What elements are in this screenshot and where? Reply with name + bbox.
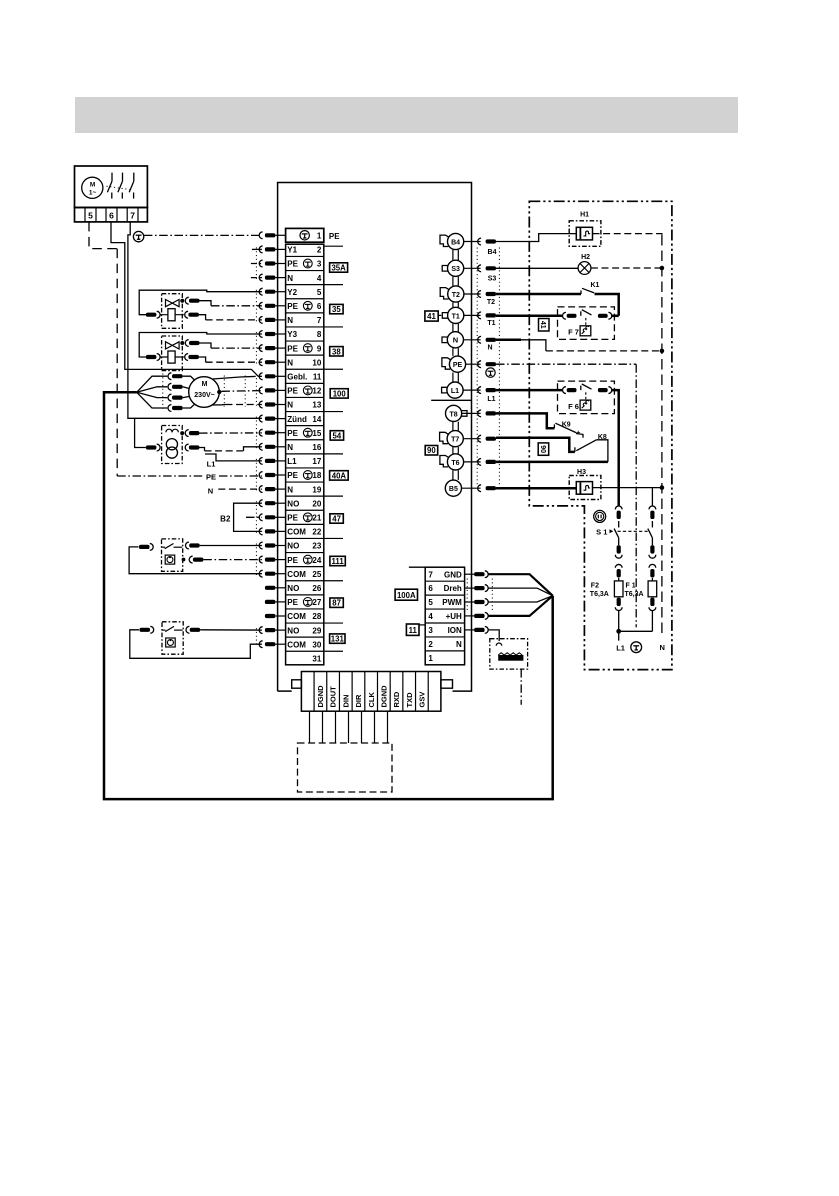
wire pump P1 PE to terminal 24 (dash-dot) (203, 559, 262, 561)
switch K9 (553, 424, 555, 428)
sensor B2 bracket (234, 503, 262, 531)
svg-text:2: 2 (428, 640, 433, 649)
connector T6 (447, 454, 463, 470)
terminal row divider 6/7 (286, 312, 324, 314)
svg-text:M: M (202, 381, 208, 388)
fan cable converging wires (488, 574, 552, 596)
edge connector cell divider 9 (415, 672, 417, 712)
svg-text:+: + (576, 428, 581, 437)
edge connector cell divider 8 (402, 672, 404, 712)
svg-text:N: N (287, 485, 293, 494)
fan block divider (425, 594, 464, 596)
svg-text:PE: PE (287, 302, 298, 311)
switch K1 (580, 290, 582, 294)
interface module (dashed box) (298, 743, 393, 792)
svg-text:35: 35 (332, 305, 341, 314)
svg-text:2: 2 (317, 246, 322, 255)
svg-text:100A: 100A (397, 591, 416, 600)
terminal row divider 17/18 (286, 467, 324, 469)
connector T2 (448, 286, 464, 302)
wire N to rail (496, 339, 521, 342)
terminal row divider 13/14 (286, 411, 324, 413)
wire B4 to H1 (496, 234, 576, 242)
svg-text:T6,3A: T6,3A (590, 591, 609, 598)
connector T1 (448, 307, 464, 323)
pump P1 PE dot (182, 558, 186, 562)
svg-text:3: 3 (317, 260, 322, 269)
valve Y2 coil (160, 314, 184, 316)
svg-text:S3: S3 (451, 266, 460, 273)
svg-text:T7: T7 (451, 437, 459, 444)
boxed label 87 (330, 598, 343, 607)
wire terminal 7 to ignition (solid) (128, 222, 262, 418)
motor top wire to Gebl.11 (213, 376, 256, 379)
svg-text:18: 18 (312, 471, 321, 480)
wire ignition L feed (135, 418, 146, 447)
terminal row divider 10/11 (286, 368, 324, 370)
transformer left plug (146, 445, 157, 449)
junction dot H2/N (660, 266, 665, 271)
valve Y2 body box (162, 294, 183, 329)
terminal row divider 19/20 (286, 495, 324, 497)
earth symbol (mains PE) (631, 642, 642, 653)
svg-text:4: 4 (428, 612, 433, 621)
svg-text:1: 1 (317, 232, 322, 241)
svg-text:16: 16 (312, 443, 321, 452)
svg-text:L1: L1 (487, 396, 495, 403)
svg-text:41: 41 (539, 321, 546, 329)
terminal row divider 28/29 (286, 622, 324, 624)
header bar (75, 97, 738, 133)
fuse body (648, 581, 657, 597)
boxed label 100A (395, 589, 417, 600)
svg-text:T8: T8 (450, 411, 458, 418)
wire transformer PE to terminal 15 (dash-dot) (199, 432, 262, 434)
rotated label 90 (538, 443, 549, 455)
svg-text:90: 90 (427, 446, 436, 455)
motor symbol M1~ in switch box (82, 177, 103, 198)
svg-text:B5: B5 (449, 486, 458, 493)
external mains switch box (75, 166, 148, 208)
terminal strip row 1 box (286, 228, 324, 242)
svg-text:38: 38 (332, 347, 341, 356)
svg-text:H3: H3 (577, 469, 586, 476)
wire PE to earth (dash-dot) (496, 363, 636, 365)
svg-text:F 7: F 7 (568, 328, 579, 337)
boxed label 11 (406, 624, 419, 635)
edge connector cell divider 1 (313, 672, 315, 712)
edge connector cell divider 3 (338, 672, 340, 712)
svg-text:PE: PE (287, 514, 298, 523)
wire T7 to K8 (496, 438, 575, 452)
svg-text:S3: S3 (488, 276, 497, 283)
svg-text:PE: PE (287, 387, 298, 396)
svg-text:COM: COM (287, 612, 306, 621)
motor lead wires (183, 376, 195, 380)
valve Y2 loop wire (139, 290, 262, 315)
svg-text:T1: T1 (452, 313, 460, 320)
svg-text:NO: NO (287, 499, 299, 508)
pump P2 (terminals 29-30) motor icon (166, 638, 176, 647)
wire T6 (496, 461, 608, 464)
svg-text:H1: H1 (580, 212, 589, 219)
terminal row divider 24/25 (286, 566, 324, 568)
fan block divider (425, 650, 464, 652)
switch contacts (3-pole) (111, 173, 113, 182)
svg-text:B2: B2 (220, 515, 231, 524)
svg-text:11: 11 (313, 373, 322, 382)
svg-text:DGND: DGND (379, 685, 388, 708)
spark gap electrodes (166, 429, 172, 432)
terminal row divider 26/27 (286, 594, 324, 596)
svg-text:5: 5 (428, 598, 433, 607)
fan block divider (425, 580, 464, 582)
svg-text:N: N (487, 344, 492, 351)
wire L1 to F6 (496, 389, 562, 392)
svg-text:RXD: RXD (392, 691, 401, 707)
S1 coupling (dashed) (618, 530, 651, 532)
appliance enclosure border (dash-dot-dot) (529, 201, 672, 669)
boxed label 54 (330, 431, 343, 440)
pump P1 PE plug (189, 556, 192, 563)
terminal plugs rows 1-30 (259, 232, 262, 239)
svg-text:PE: PE (453, 362, 463, 369)
motor PE dot and wire to terminal 12 (dash-dot) (217, 390, 221, 394)
boxed label 38 (330, 347, 343, 356)
motor N wire to terminal 13 (dashed) (213, 404, 226, 407)
edge connector cell divider 2 (326, 672, 328, 712)
mains contact F6 (558, 381, 615, 414)
rotated label 41 (539, 319, 550, 332)
dotted cable marks at motor (162, 374, 164, 410)
fan connector block (425, 567, 464, 665)
terminal row divider 16/17 (286, 453, 324, 455)
connector PE (449, 356, 465, 372)
pump P2 (terminals 29-30) switch lever (163, 629, 166, 631)
wire stub terminal 4 (N, dashed) (251, 277, 262, 279)
svg-text:30: 30 (312, 640, 321, 649)
boxed label 40A (330, 471, 349, 480)
svg-text:L1: L1 (287, 457, 297, 466)
svg-text:40A: 40A (332, 471, 347, 480)
connector group separator (431, 399, 471, 401)
blower fan cable (routing loop) (104, 392, 553, 799)
svg-text:GSV: GSV (417, 692, 426, 708)
switch S1 right pole (651, 488, 653, 506)
terminal row divider 22/23 (286, 537, 324, 539)
PE symbol at switch box (133, 231, 143, 241)
burner electrode (498, 655, 523, 661)
overheat contact F7 (558, 307, 615, 340)
terminal row divider 18/19 (286, 481, 324, 483)
wire terminal 6 to blower (solid) (111, 222, 262, 376)
svg-text:DIN: DIN (341, 695, 350, 708)
timer symbol (594, 510, 606, 522)
svg-text:PE: PE (287, 429, 298, 438)
fan block plug (465, 587, 475, 589)
svg-text:23: 23 (312, 542, 321, 551)
svg-text:4: 4 (317, 274, 322, 283)
terminal row divider 9/10 (286, 354, 324, 356)
svg-text:PE: PE (329, 232, 340, 241)
svg-text:PE: PE (287, 598, 298, 607)
svg-text:6: 6 (428, 584, 433, 593)
svg-text:20: 20 (312, 499, 321, 508)
svg-text:H2: H2 (581, 254, 590, 261)
svg-text:ION: ION (448, 626, 462, 635)
terminal row divider 21/22 (286, 523, 324, 525)
svg-text:26: 26 (312, 584, 321, 593)
svg-text:N: N (287, 358, 293, 367)
svg-text:GND: GND (444, 570, 462, 579)
svg-text:Zünd: Zünd (287, 415, 307, 424)
svg-text:87: 87 (332, 599, 341, 608)
pump P1 (terminals 23-25) motor icon (165, 555, 175, 564)
svg-text:Y3: Y3 (287, 330, 297, 339)
svg-text:PE: PE (287, 260, 298, 269)
svg-text:9: 9 (317, 344, 322, 353)
ionisation wire (488, 630, 499, 641)
wire PE rail to terminal 18 (dash-dot) (117, 475, 203, 477)
valve Y3 N wire (dashed) (199, 357, 206, 362)
edge connector box (301, 672, 441, 712)
pump P1 (terminals 23-25) box (162, 539, 183, 571)
terminal row divider 4/5 (286, 284, 324, 286)
terminal row divider 2/3 (286, 255, 324, 257)
svg-text:N: N (208, 487, 213, 496)
blower fan-out wires (137, 376, 168, 392)
svg-text:S 1: S 1 (596, 527, 607, 536)
svg-text:T6,3A: T6,3A (625, 591, 644, 598)
terminal row divider 8/9 (286, 340, 324, 342)
terminal row divider 23/24 (286, 552, 324, 554)
svg-text:F2: F2 (591, 583, 599, 590)
svg-text:Y1: Y1 (287, 246, 297, 255)
svg-text:41: 41 (427, 312, 436, 321)
svg-text:131: 131 (331, 635, 345, 644)
svg-text:COM: COM (287, 528, 306, 537)
connector T8 (446, 405, 462, 421)
svg-text:100: 100 (333, 389, 347, 398)
svg-text:35A: 35A (331, 264, 346, 273)
svg-text:24: 24 (312, 556, 321, 565)
junction dot N rail (660, 349, 665, 354)
svg-text:L1: L1 (207, 460, 216, 469)
terminal row divider 27/28 (286, 608, 324, 610)
svg-text:DGND: DGND (316, 685, 325, 708)
wire T1 to F7 (496, 315, 562, 318)
svg-text:27: 27 (312, 598, 321, 607)
transformer windings (166, 439, 177, 450)
fuse body (614, 581, 623, 597)
valve Y3 symbol (166, 342, 173, 349)
svg-text:17: 17 (312, 457, 321, 466)
svg-text:5: 5 (317, 288, 322, 297)
pump P1 left plug (139, 545, 150, 549)
svg-text:NO: NO (287, 584, 299, 593)
svg-text:L1: L1 (451, 388, 459, 395)
transformer N plug (185, 444, 188, 451)
svg-text:NO: NO (287, 626, 299, 635)
svg-text:54: 54 (333, 431, 342, 440)
svg-text:PE: PE (287, 344, 298, 353)
svg-text:13: 13 (312, 401, 321, 410)
connector N (447, 332, 463, 348)
svg-text:N: N (453, 336, 458, 345)
ionisation electrode box (490, 639, 528, 669)
svg-text:90: 90 (539, 445, 546, 453)
valve Y3 coil (160, 356, 184, 358)
svg-text:11: 11 (409, 626, 418, 635)
boxed label 41 (425, 311, 438, 321)
svg-text:111: 111 (332, 557, 345, 566)
edge connector cell divider 4 (351, 672, 353, 712)
svg-text:T2: T2 (452, 292, 460, 299)
transformer PE plug (185, 430, 188, 437)
svg-text:6: 6 (109, 211, 114, 221)
svg-text:COM: COM (287, 570, 306, 579)
terminal row divider 5/6 (286, 298, 324, 300)
svg-text:N: N (456, 640, 462, 649)
svg-text:DIR: DIR (354, 694, 363, 708)
svg-text:T1: T1 (487, 320, 495, 327)
valve Y2 PE plug (185, 297, 188, 304)
terminal row divider 15/16 (286, 439, 324, 441)
terminal row divider 14/15 (286, 425, 324, 427)
svg-text:Y2: Y2 (287, 288, 297, 297)
wire B5 to H3 (496, 487, 576, 490)
svg-text:L1: L1 (616, 643, 625, 652)
terminal row divider 30/31 (286, 650, 324, 652)
pump P2 supply loop wire (130, 630, 262, 659)
wire PE symbol to terminal 1 (dash-dot) (144, 234, 262, 236)
svg-text:14: 14 (312, 415, 321, 424)
wire H1 to N rail (dashed) (593, 234, 662, 235)
fan block divider (425, 622, 464, 624)
pump P2 (terminals 29-30) box (162, 622, 183, 654)
valve Y3 N plug (185, 354, 188, 361)
svg-text:DOUT: DOUT (329, 686, 338, 708)
svg-text:N: N (287, 274, 293, 283)
boxed label 47 (330, 514, 343, 523)
dotted marks at fan block (466, 579, 468, 613)
svg-text:N: N (659, 643, 664, 652)
terminal row divider 11/12 (286, 382, 324, 384)
fan block plug (465, 601, 475, 603)
fan block plug (465, 615, 475, 617)
wire S3 to H2 (496, 267, 578, 269)
svg-text:COM: COM (287, 640, 306, 649)
terminal strip rows 2-31 box (286, 244, 324, 665)
wire H3 to N rail (593, 487, 662, 489)
wire terminal 5 to PE rail (dashed) (89, 222, 117, 249)
svg-text:CLK: CLK (367, 692, 376, 708)
svg-text:47: 47 (332, 515, 341, 524)
wire T2 to switch K1 (496, 293, 581, 296)
svg-text:K1: K1 (591, 282, 600, 289)
svg-text:PWM: PWM (442, 598, 462, 607)
boxed label 35 (330, 304, 343, 313)
plug label PE (earth symbol) (486, 368, 495, 377)
terminal row divider 20/21 (286, 509, 324, 511)
svg-text:28: 28 (312, 612, 321, 621)
connector B5 (445, 480, 461, 496)
blower motor M 230V~ (189, 377, 220, 408)
pump P1 NO plug (185, 542, 188, 549)
connector B4 (448, 233, 464, 249)
fan block plug (465, 573, 475, 575)
edge connector cell divider 6 (376, 672, 378, 712)
fan block divider (425, 636, 464, 638)
svg-text:F 1: F 1 (626, 583, 636, 590)
svg-text:NO: NO (287, 542, 299, 551)
valve Y2 left plug (146, 313, 157, 317)
edge connector left ear (292, 680, 302, 688)
valve Y2 N plug (185, 311, 188, 318)
svg-text:5: 5 (88, 211, 93, 221)
svg-text:1~: 1~ (89, 190, 97, 197)
terminal row divider 25/26 (286, 580, 324, 582)
terminal row divider 12/13 (286, 396, 324, 398)
svg-text:M: M (90, 181, 95, 188)
wire N terminal 19 (dashed) (218, 488, 262, 490)
transformer PE dot (180, 431, 184, 435)
boxed label 131 (330, 634, 345, 643)
svg-text:19: 19 (312, 485, 321, 494)
svg-text:29: 29 (312, 626, 321, 635)
svg-text:PE: PE (287, 471, 298, 480)
connector plugs (464, 241, 481, 243)
connector T7 (447, 431, 463, 447)
dotted cable grouping lines (255, 247, 257, 279)
wire T8 to K9 (496, 413, 554, 428)
svg-text:N: N (287, 401, 293, 410)
wire transformer N to terminal 16 (dashed) (199, 448, 205, 451)
svg-text:TXD: TXD (405, 692, 414, 708)
pump P2 left plug (140, 628, 151, 632)
svg-text:10: 10 (312, 358, 321, 367)
pump P1 (terminals 23-25) switch lever (162, 546, 165, 548)
svg-text:T6: T6 (451, 460, 459, 467)
blower plugs (168, 373, 171, 380)
valve Y3 body box (162, 336, 183, 371)
boxed label 111 (330, 556, 345, 565)
valve Y2 N wire (dashed) (199, 315, 206, 320)
svg-text:15: 15 (312, 429, 321, 438)
svg-text:Dreh: Dreh (444, 584, 462, 593)
valve Y3 loop wire (139, 333, 262, 358)
ignition transformer box (162, 426, 183, 464)
wire stub terminal 3 (PE, dash-dot) (251, 263, 262, 265)
edge connector cell divider 5 (364, 672, 366, 712)
edge connector pins (309, 711, 311, 743)
burner ground tail (dash-dot) (520, 669, 522, 705)
svg-text:1: 1 (428, 654, 433, 663)
pump P2 NO plug (186, 626, 189, 633)
svg-text:7: 7 (428, 570, 433, 579)
svg-text:7: 7 (130, 211, 135, 221)
svg-text:B4: B4 (488, 249, 497, 256)
junction dot H3/N (660, 485, 665, 490)
switch K8 (574, 447, 576, 452)
svg-text:8: 8 (317, 330, 322, 339)
boxed label 35A (330, 263, 348, 272)
terminal row divider 29/30 (286, 636, 324, 638)
fan block plug (465, 629, 475, 631)
connector column links (452, 250, 454, 260)
svg-text:PE: PE (287, 556, 298, 565)
svg-text:N: N (287, 316, 293, 325)
